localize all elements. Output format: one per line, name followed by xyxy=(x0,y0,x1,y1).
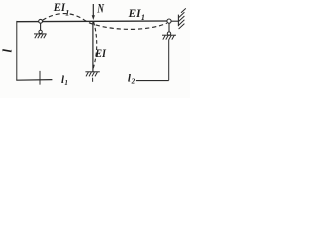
dimension line l (left vertical) xyxy=(16,21,18,81)
left support hinge circle xyxy=(39,19,43,23)
svg-text:l: l xyxy=(0,49,14,53)
background xyxy=(0,0,190,98)
load N arrow xyxy=(92,4,95,20)
right support horizontal link xyxy=(171,20,178,22)
svg-text:N: N xyxy=(97,1,105,15)
right support ground xyxy=(162,35,176,39)
left support ground xyxy=(34,34,47,38)
svg-text:1: 1 xyxy=(141,13,145,22)
left support link xyxy=(40,23,42,30)
svg-text:EI: EI xyxy=(94,48,106,60)
dimension tick below left support xyxy=(39,71,41,85)
svg-text:1: 1 xyxy=(64,79,68,87)
dimension line right vertical xyxy=(168,40,170,81)
right support hinge circle xyxy=(167,19,171,23)
svg-text:EI: EI xyxy=(53,0,66,14)
right support base pin xyxy=(167,32,170,35)
left support base pin xyxy=(39,30,42,33)
column base dimension tick xyxy=(92,78,94,82)
dimension line bottom right segment (l2) xyxy=(136,80,169,82)
column base ground (fixed support) xyxy=(85,72,99,77)
deflection curve column (dashed) xyxy=(93,22,97,70)
right support vertical link xyxy=(168,23,170,32)
deflection curve beam (dashed, continuous through node) xyxy=(43,14,167,30)
svg-text:1: 1 xyxy=(65,8,69,17)
svg-text:2: 2 xyxy=(131,77,136,85)
right wall hatching xyxy=(179,8,186,29)
right wall line xyxy=(177,15,179,27)
beam (horizontal member) xyxy=(17,20,167,23)
svg-text:EI: EI xyxy=(128,6,142,20)
column EI (vertical member) xyxy=(92,21,94,72)
dimension line bottom left segment (l1) xyxy=(16,79,52,82)
